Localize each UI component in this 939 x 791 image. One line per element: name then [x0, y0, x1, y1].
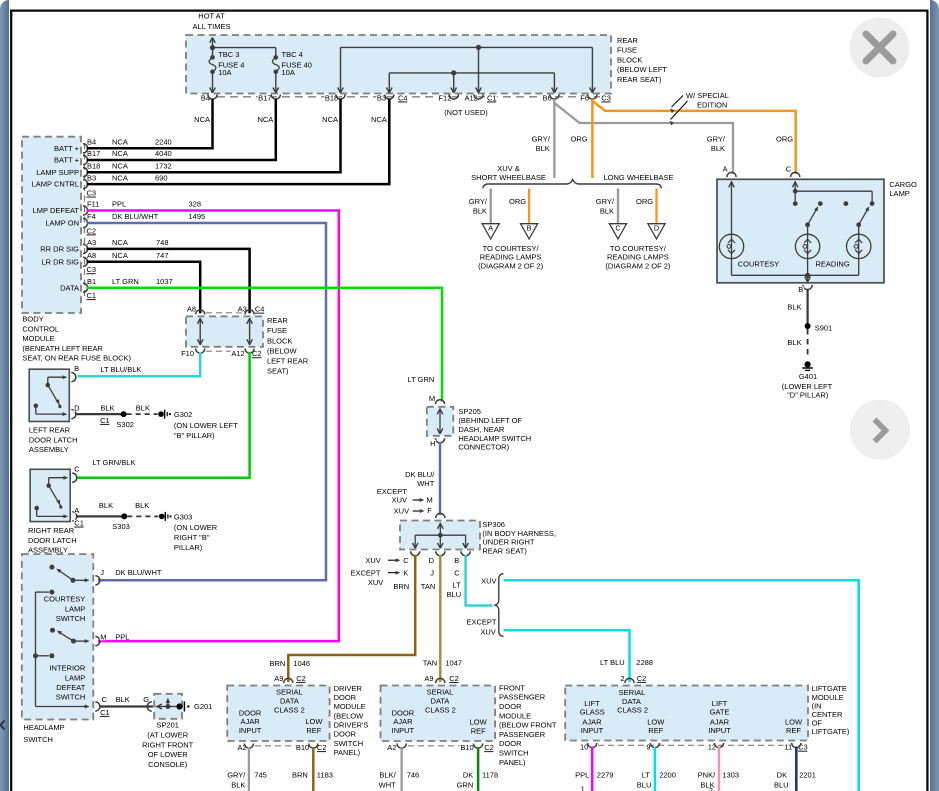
svg-text:CONNECTOR): CONNECTOR) — [458, 443, 509, 452]
wire B4 NCA 2240 BCM to fuse block — [87, 99, 213, 149]
svg-text:SEAT): SEAT) — [267, 367, 289, 376]
svg-text:GATE: GATE — [710, 708, 730, 717]
svg-text:EXCEPT: EXCEPT — [466, 617, 496, 626]
svg-text:EXCEPT: EXCEPT — [351, 568, 381, 577]
svg-text:2: 2 — [709, 786, 713, 791]
svg-text:SP205: SP205 — [458, 407, 481, 416]
reading lamp bulb 1 — [795, 234, 819, 258]
svg-text:TAN: TAN — [423, 658, 437, 667]
svg-text:F11: F11 — [87, 200, 99, 209]
rear fuse block lower name label — [267, 316, 309, 376]
svg-text:RR DR SIG: RR DR SIG — [40, 244, 79, 253]
XUV & SHORT WHEELBASE label — [471, 164, 546, 182]
svg-text:1183: 1183 — [317, 770, 333, 779]
svg-text:BLK: BLK — [787, 302, 801, 311]
off-page connector D — [636, 189, 665, 239]
wire ORG F6 down to wheelbase brace — [591, 99, 594, 178]
wire BLK right latch A to splice S303 — [76, 513, 130, 531]
svg-text:BLK: BLK — [536, 144, 550, 153]
driver door module box — [227, 678, 329, 741]
svg-text:A: A — [74, 506, 79, 515]
svg-text:NCA: NCA — [112, 161, 128, 170]
svg-text:2: 2 — [620, 674, 624, 683]
svg-text:BLK: BLK — [711, 144, 725, 153]
svg-text:BRN: BRN — [269, 659, 285, 668]
svg-text:PPL: PPL — [112, 200, 126, 209]
wire F11 PPL 328 to headlamp switch M — [87, 211, 339, 642]
svg-text:SERIAL: SERIAL — [619, 688, 646, 697]
svg-text:DRIVER: DRIVER — [334, 684, 363, 693]
svg-text:LT GRN: LT GRN — [112, 277, 139, 286]
fuse block bottom connector dashed line — [217, 96, 600, 98]
TO COURTESY/READING LAMPS labels — [478, 244, 671, 270]
svg-text:GRY/: GRY/ — [227, 770, 246, 779]
svg-text:D: D — [429, 556, 435, 565]
EXCEPT XUV to M label — [377, 487, 433, 505]
reading lamp switch 1 blade — [805, 206, 818, 234]
wire F4 DK BLU/WHT 1495 to headlamp switch J — [87, 223, 326, 580]
svg-text:RIGHT REAR: RIGHT REAR — [28, 526, 75, 535]
off-page connector C — [596, 189, 627, 239]
svg-text:REAR: REAR — [617, 36, 638, 45]
svg-text:C3: C3 — [87, 188, 97, 197]
svg-text:DASH, NEAR: DASH, NEAR — [458, 425, 504, 434]
svg-text:C4: C4 — [255, 305, 265, 314]
svg-text:LIFT: LIFT — [712, 699, 728, 708]
svg-text:1037: 1037 — [156, 277, 173, 286]
svg-text:C: C — [454, 568, 460, 577]
driver door module bottom pins — [237, 743, 327, 752]
svg-text:MODULE: MODULE — [499, 711, 531, 720]
svg-text:SP201: SP201 — [156, 721, 179, 730]
svg-text:A9: A9 — [424, 674, 433, 683]
svg-text:2288: 2288 — [636, 658, 653, 667]
svg-text:(ON LOWER LEFT: (ON LOWER LEFT — [174, 421, 238, 430]
NCA labels under fuse block — [194, 115, 387, 124]
svg-text:BLU: BLU — [774, 780, 789, 789]
svg-text:LT BLU: LT BLU — [600, 658, 625, 667]
svg-text:NCA: NCA — [371, 115, 387, 124]
fuse block lower internal rail to B3/F12/B6 — [386, 70, 557, 93]
svg-text:SWITCH: SWITCH — [334, 739, 364, 748]
svg-text:CLASS 2: CLASS 2 — [274, 705, 305, 714]
wire BLK left latch D to splice S302 — [76, 411, 135, 429]
svg-text:B10: B10 — [296, 743, 309, 752]
svg-text:745: 745 — [254, 770, 267, 779]
fuse TBC 3 FUSE 4 10A — [209, 48, 244, 93]
svg-text:HEADLAMP SWITCH: HEADLAMP SWITCH — [458, 434, 531, 443]
svg-text:LOW: LOW — [305, 717, 323, 726]
svg-text:J: J — [430, 568, 434, 577]
wire LT BLU XUV option to liftgate area — [504, 580, 859, 791]
left rear door latch labels — [29, 364, 150, 454]
svg-text:LEFT REAR: LEFT REAR — [267, 356, 309, 365]
svg-text:DATA: DATA — [60, 283, 79, 292]
wire DK GRN 1178 from front passenger module B10 — [457, 747, 499, 791]
fuse block upper internal rail to B18/A12/F6 — [338, 45, 596, 93]
HOT AT ALL TIMES label — [193, 12, 231, 32]
svg-text:1047: 1047 — [445, 658, 462, 667]
svg-text:PPL: PPL — [575, 770, 589, 779]
off-page connector B — [509, 189, 538, 239]
svg-text:LAMP CNTRL: LAMP CNTRL — [32, 180, 79, 189]
svg-text:C: C — [403, 556, 409, 565]
left rear door latch assembly box and switch — [29, 369, 76, 421]
svg-text:READING: READING — [816, 260, 850, 269]
svg-text:690: 690 — [155, 173, 168, 182]
svg-text:DATA: DATA — [622, 697, 641, 706]
svg-text:LEFT REAR: LEFT REAR — [29, 426, 71, 435]
svg-text:XUV: XUV — [368, 578, 383, 587]
svg-text:B18: B18 — [87, 161, 100, 170]
svg-text:SWITCH: SWITCH — [56, 614, 86, 623]
svg-text:DK: DK — [463, 770, 473, 779]
svg-text:G302: G302 — [174, 410, 192, 419]
svg-text:BLU: BLU — [637, 780, 652, 789]
SP205 pin labels M H — [429, 394, 436, 448]
courtesy lamp switch contacts and blade — [49, 565, 89, 583]
front passenger door module bottom pins — [387, 743, 494, 752]
headlamp switch box — [22, 554, 94, 719]
svg-text:LMP DEFEAT: LMP DEFEAT — [33, 206, 80, 215]
cargo lamp name label — [889, 180, 917, 198]
svg-text:LT GRN/BLK: LT GRN/BLK — [92, 458, 135, 467]
svg-text:B4: B4 — [87, 137, 96, 146]
splice SP205 name label — [458, 407, 531, 452]
svg-text:XUV: XUV — [481, 576, 496, 585]
svg-text:S302: S302 — [116, 420, 134, 429]
svg-text:A8: A8 — [87, 251, 96, 260]
wire LT BLU 2200 from liftgate pin 9 — [637, 747, 676, 791]
svg-text:10A: 10A — [282, 68, 295, 77]
wire BLK cargo lamp B to S901 — [787, 289, 832, 332]
svg-text:PASSENGER: PASSENGER — [499, 730, 546, 739]
svg-text:REF: REF — [306, 726, 321, 735]
svg-text:BODY: BODY — [22, 315, 43, 324]
svg-text:A8: A8 — [187, 305, 196, 314]
svg-text:DK BLU/: DK BLU/ — [405, 470, 435, 479]
wire B18 NCA 1732 — [87, 99, 341, 172]
svg-text:B17: B17 — [258, 93, 271, 102]
cargo lamp pin cups A C — [722, 164, 800, 177]
svg-text:AJAR: AJAR — [393, 717, 413, 726]
left blue sidebar strip — [0, 0, 9, 791]
courtesy lamp switch label — [44, 595, 86, 623]
rear fuse block lower pin cups — [196, 310, 255, 353]
svg-text:A12: A12 — [231, 349, 244, 358]
liftgate module pin 2 C2 labels — [620, 674, 647, 683]
svg-text:2200: 2200 — [659, 770, 676, 779]
svg-text:A9: A9 — [274, 674, 283, 683]
svg-text:M: M — [100, 633, 106, 642]
svg-text:A3: A3 — [87, 238, 96, 247]
svg-text:C3: C3 — [601, 93, 611, 102]
svg-text:ALL TIMES: ALL TIMES — [193, 22, 231, 31]
svg-text:F10: F10 — [181, 349, 194, 358]
EXCEPT XUV label at brace — [466, 617, 496, 636]
svg-text:TAN: TAN — [421, 582, 435, 591]
right rear door latch labels — [28, 458, 149, 554]
svg-text:MODULE: MODULE — [334, 702, 366, 711]
svg-text:LAMP ON: LAMP ON — [45, 219, 79, 228]
wire B3 NCA 690 — [87, 99, 390, 184]
svg-text:SWITCH: SWITCH — [23, 735, 53, 744]
svg-text:H: H — [430, 439, 435, 448]
TAN 1047 labels — [423, 658, 462, 667]
wire ORG F6 to cargo lamp C — [592, 99, 795, 174]
svg-text:748: 748 — [156, 238, 169, 247]
svg-text:NCA: NCA — [112, 149, 128, 158]
svg-text:CLASS 2: CLASS 2 — [425, 705, 456, 714]
svg-text:"D" PILLAR): "D" PILLAR) — [787, 390, 829, 399]
svg-text:M: M — [427, 496, 433, 505]
fuse block feed wire from HOT AT — [210, 38, 276, 58]
svg-text:GRY/: GRY/ — [469, 197, 488, 206]
svg-text:PPL: PPL — [115, 633, 129, 642]
svg-text:BATT +: BATT + — [54, 144, 80, 153]
svg-text:ORG: ORG — [571, 135, 588, 144]
GRY/BLK ORG labels near cargo lamp — [707, 135, 793, 153]
svg-text:DK BLU/WHT: DK BLU/WHT — [112, 212, 159, 221]
right rear door latch assembly box and switch — [30, 469, 77, 521]
svg-text:REF: REF — [648, 726, 663, 735]
svg-text:C1: C1 — [74, 518, 84, 527]
svg-text:B: B — [454, 556, 459, 565]
svg-text:(BENEATH LEFT REAR: (BENEATH LEFT REAR — [22, 344, 103, 353]
svg-text:A2: A2 — [238, 743, 247, 752]
W/ SPECIAL EDITION callout — [670, 91, 729, 125]
svg-text:SWITCH: SWITCH — [56, 693, 86, 702]
svg-text:C: C — [786, 164, 792, 173]
svg-text:RIGHT FRONT: RIGHT FRONT — [142, 740, 194, 749]
svg-text:(DIAGRAM 2 OF 2): (DIAGRAM 2 OF 2) — [478, 261, 544, 270]
wire GRY/BLK B6 to cargo lamp A — [554, 99, 733, 174]
svg-text:LOW: LOW — [470, 717, 488, 726]
svg-text:1: 1 — [581, 784, 585, 791]
svg-text:BLK: BLK — [600, 206, 614, 215]
svg-text:DOOR: DOOR — [334, 730, 357, 739]
svg-text:XUV &: XUV & — [497, 164, 520, 173]
svg-text:SP306: SP306 — [482, 520, 505, 529]
svg-text:DOOR: DOOR — [392, 708, 415, 717]
driver door module name label — [334, 684, 369, 757]
wire LT BLU SP306 B to brace — [466, 555, 493, 606]
headlamp switch pin labels — [100, 568, 162, 717]
DK BLU/WHT label — [405, 470, 435, 488]
svg-text:K: K — [403, 568, 408, 577]
svg-text:NCA: NCA — [194, 115, 210, 124]
svg-text:(BELOW: (BELOW — [267, 346, 298, 355]
svg-text:10A: 10A — [218, 68, 231, 77]
svg-text:C: C — [615, 223, 620, 232]
liftgate module name label — [812, 684, 850, 736]
svg-text:(BEHIND LEFT OF: (BEHIND LEFT OF — [458, 416, 522, 425]
wire LT BLU 2288 EXCEPT XUV option to liftgate pin 2 — [504, 630, 630, 682]
wire B17 NCA 4040 — [87, 99, 276, 160]
XUV to F label — [394, 506, 432, 516]
svg-text:ORG: ORG — [636, 197, 653, 206]
svg-text:UNDER RIGHT: UNDER RIGHT — [482, 538, 535, 547]
BCM connector id labels C3 C2 C3 C1 — [86, 188, 96, 300]
dashed BLK wire S303 to G303 — [127, 512, 171, 521]
svg-text:BLK: BLK — [135, 501, 149, 510]
svg-text:FRONT: FRONT — [499, 683, 525, 692]
svg-text:NCA: NCA — [322, 115, 338, 124]
svg-text:REAR SEAT): REAR SEAT) — [482, 547, 527, 556]
COURTESY READING labels — [738, 260, 850, 269]
svg-text:BLK: BLK — [787, 338, 801, 347]
svg-text:B3: B3 — [87, 173, 96, 182]
svg-text:G303: G303 — [174, 512, 192, 521]
wire LT GRN/BLK A12 to right rear door latch C — [77, 352, 250, 478]
liftgate module box — [565, 678, 808, 740]
front passenger door module name label — [499, 683, 557, 766]
svg-text:SERIAL: SERIAL — [427, 687, 454, 696]
cargo lamp box — [717, 179, 884, 282]
liftgate module bottom pins — [580, 743, 808, 752]
rear fuse block lower pass-through A3-A12 — [247, 318, 253, 345]
svg-text:A2: A2 — [387, 743, 396, 752]
wire TAN SP306 to front passenger door module — [439, 555, 442, 682]
svg-text:AJAR: AJAR — [710, 717, 730, 726]
svg-text:FUSE: FUSE — [267, 326, 287, 335]
svg-text:C: C — [102, 695, 108, 704]
LT BLU 2288 labels — [600, 658, 653, 667]
svg-text:DOOR: DOOR — [334, 693, 357, 702]
splice SP201 name label — [142, 721, 194, 769]
svg-text:S303: S303 — [112, 522, 130, 531]
svg-text:CARGO: CARGO — [889, 180, 917, 189]
svg-text:COURTESY: COURTESY — [738, 260, 780, 269]
svg-text:LAMP SUPP: LAMP SUPP — [36, 168, 79, 177]
wire DK BLU/WHT SP205 H to SP306 — [439, 442, 442, 515]
svg-text:REF: REF — [471, 726, 486, 735]
svg-text:SHORT WHEELBASE: SHORT WHEELBASE — [471, 173, 546, 182]
svg-text:AJAR: AJAR — [241, 717, 261, 726]
svg-text:2201: 2201 — [799, 770, 816, 779]
svg-text:DEFEAT: DEFEAT — [56, 683, 85, 692]
svg-text:BRN: BRN — [393, 582, 409, 591]
svg-text:PANEL): PANEL) — [499, 758, 526, 767]
svg-text:DOOR LATCH: DOOR LATCH — [28, 536, 77, 545]
svg-text:CONSOLE): CONSOLE) — [148, 760, 188, 769]
rear fuse block lower pin labels — [180, 305, 265, 359]
svg-text:BLOCK: BLOCK — [267, 336, 292, 345]
svg-text:1732: 1732 — [155, 161, 172, 170]
svg-text:RIGHT "B": RIGHT "B" — [174, 533, 210, 542]
splice SP205 box — [427, 400, 454, 443]
headlamp switch internal bus — [33, 590, 90, 709]
svg-text:EXCEPT: EXCEPT — [377, 487, 407, 496]
svg-text:LT: LT — [642, 770, 651, 779]
svg-text:C1: C1 — [87, 291, 97, 300]
svg-text:BLK: BLK — [231, 780, 245, 789]
dashed BLK wire S901 to G401 — [787, 329, 807, 358]
wire BLK/WHT 746 from front passenger module A2 — [379, 747, 420, 791]
BCM name label — [22, 315, 131, 363]
svg-text:INPUT: INPUT — [239, 726, 262, 735]
svg-text:SEAT, ON REAR FUSE BLOCK): SEAT, ON REAR FUSE BLOCK) — [22, 353, 131, 362]
svg-text:(NOT USED): (NOT USED) — [444, 108, 488, 117]
svg-text:DOOR: DOOR — [499, 739, 522, 748]
svg-text:TBC 3: TBC 3 — [218, 50, 239, 59]
svg-text:DOOR: DOOR — [239, 708, 262, 717]
svg-text:DOOR: DOOR — [499, 702, 522, 711]
courtesy lamp bulb — [719, 234, 743, 258]
svg-text:G401: G401 — [799, 372, 817, 381]
BCM pin cups and row labels — [32, 137, 206, 292]
GRY/BLK ORG labels below fuse block — [532, 135, 588, 153]
svg-text:C: C — [74, 464, 80, 473]
body control module box — [22, 137, 81, 313]
driver door module pin A9 C2 labels — [274, 674, 306, 683]
svg-text:F4: F4 — [87, 212, 96, 221]
svg-text:BRN: BRN — [292, 770, 308, 779]
svg-text:XUV: XUV — [365, 556, 380, 565]
ground G302 label — [174, 410, 238, 440]
svg-text:1046: 1046 — [293, 659, 310, 668]
svg-text:BLOCK: BLOCK — [617, 55, 642, 64]
off-page connector A to courtesy/reading lamps — [469, 189, 500, 239]
svg-text:GLASS: GLASS — [580, 708, 605, 717]
svg-text:C2: C2 — [449, 674, 459, 683]
svg-text:LT BLU/BLK: LT BLU/BLK — [100, 365, 141, 374]
wire PNK/BLK 1303 from liftgate pin 12 — [698, 747, 739, 791]
svg-text:D: D — [74, 404, 80, 413]
svg-text:LONG WHEELBASE: LONG WHEELBASE — [603, 173, 673, 182]
svg-text:REAR SEAT): REAR SEAT) — [617, 75, 662, 84]
svg-text:B17: B17 — [87, 149, 100, 158]
svg-text:BLU: BLU — [447, 590, 462, 599]
svg-text:(BELOW LEFT: (BELOW LEFT — [617, 65, 667, 74]
rear fuse block (lower) box — [186, 316, 263, 346]
rear fuse block (top) box — [186, 35, 611, 94]
svg-text:G201: G201 — [194, 702, 212, 711]
svg-text:CONTROL: CONTROL — [22, 324, 59, 333]
svg-text:B1: B1 — [87, 277, 96, 286]
svg-text:SERIAL: SERIAL — [276, 687, 303, 696]
svg-text:INPUT: INPUT — [581, 726, 604, 735]
liftgate module inner labels — [580, 688, 803, 735]
svg-text:NCA: NCA — [112, 137, 128, 146]
svg-text:INTERIOR: INTERIOR — [49, 664, 85, 673]
cargo lamp ground bus to pin B — [732, 259, 859, 290]
svg-text:DOOR LATCH: DOOR LATCH — [29, 435, 78, 444]
svg-text:C1: C1 — [100, 708, 110, 717]
svg-text:EDITION: EDITION — [697, 100, 727, 109]
svg-text:NCA: NCA — [112, 251, 128, 260]
svg-text:DATA: DATA — [280, 696, 299, 705]
wire GRY/BLK 745 from driver module A2 — [227, 747, 267, 791]
svg-text:GRY/: GRY/ — [596, 197, 615, 206]
svg-text:BLK: BLK — [99, 501, 113, 510]
svg-text:C2: C2 — [637, 674, 647, 683]
svg-text:328: 328 — [189, 200, 202, 209]
svg-text:INPUT: INPUT — [392, 726, 415, 735]
svg-text:A: A — [723, 164, 728, 173]
svg-text:FUSE: FUSE — [617, 46, 637, 55]
svg-text:B: B — [798, 285, 803, 294]
wire A3 NCA 748 to rear fuse block A3 — [87, 249, 250, 313]
svg-text:LOW: LOW — [785, 717, 803, 726]
wire LT BLU/BLK F10 to left rear door latch B — [78, 352, 201, 376]
svg-text:2240: 2240 — [155, 137, 172, 146]
ground G401 label — [782, 372, 833, 399]
wheelbase selector brace — [483, 180, 662, 189]
svg-text:XUV: XUV — [480, 627, 495, 636]
SP306 pin letter labels — [351, 556, 462, 599]
headlamp switch name label — [23, 723, 64, 744]
